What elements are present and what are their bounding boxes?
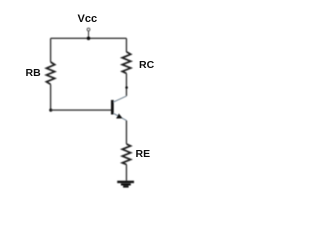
- svg-text:RB: RB: [26, 67, 42, 79]
- svg-text:Vcc: Vcc: [78, 13, 98, 25]
- svg-text:RC: RC: [139, 59, 155, 71]
- svg-text:RE: RE: [136, 148, 151, 160]
